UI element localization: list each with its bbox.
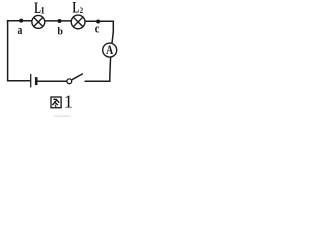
svg-text:1: 1 (64, 92, 73, 112)
wire: bottom side from bottom-left corner to battery (7, 80, 30, 82)
node c (junction dot) (96, 20, 100, 24)
wire: bottom side from bottom-right corner to switch (85, 80, 111, 82)
node a (junction dot) (19, 19, 23, 23)
svg-text:a: a (18, 24, 23, 38)
switch S blade (open) (72, 74, 83, 80)
svg-text:2: 2 (80, 5, 84, 15)
lamp L1 (32, 15, 45, 28)
wire: switch to battery (37, 80, 67, 82)
svg-text:L: L (73, 0, 80, 16)
wire: right side lower, ammeter to bottom-right corner (109, 57, 112, 81)
node b (junction dot) (58, 19, 62, 23)
switch S pivot (67, 79, 72, 84)
lamp L2 (71, 15, 85, 29)
wire: top side from lamp L2 to top-right corner (85, 20, 114, 22)
caption: character 图 (drawn) (51, 97, 61, 108)
svg-text:b: b (57, 26, 63, 37)
battery negative plate (short thick) (35, 77, 38, 85)
battery positive plate (long) (30, 74, 32, 87)
wire: right side upper, top-right corner down to ammeter (112, 21, 113, 44)
svg-text:c: c (95, 21, 100, 35)
wire: top side between lamp L1 and lamp L2 (45, 20, 72, 22)
ammeter A (103, 43, 117, 58)
wire: left vertical side (7, 20, 9, 81)
svg-text:1: 1 (40, 6, 45, 16)
svg-text:A: A (106, 43, 114, 58)
wire: top side from top-left corner to lamp L1 (7, 20, 32, 22)
